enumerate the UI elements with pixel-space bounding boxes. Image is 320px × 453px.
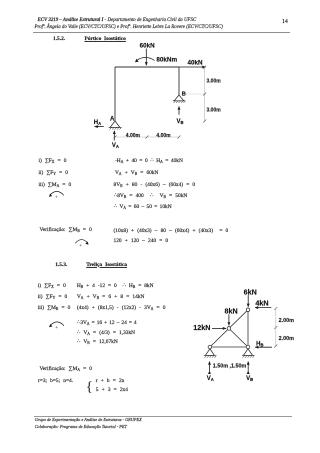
load arrow 60kN (145, 49, 147, 66)
label VB truss (246, 376, 253, 382)
label 60kN (140, 42, 156, 49)
footer line 2 (35, 425, 127, 429)
truss member right vertical (247, 310, 249, 347)
node label A (110, 117, 115, 123)
verification 1.5.3 (40, 367, 93, 372)
truss label 4kN (255, 299, 268, 308)
equations section 1.5.3 right column (77, 284, 154, 289)
svg-text:B: B (182, 92, 186, 98)
moment sign convention arrow (section 1.5.3 iii) (49, 322, 64, 331)
truss node middle (227, 327, 231, 331)
verification 1.5.2 (40, 228, 92, 233)
label HB (256, 342, 263, 348)
svg-text:1.50m: 1.50m (213, 363, 228, 369)
node label B (182, 92, 186, 98)
equations section 1.5.3 left column (38, 284, 66, 289)
beam (115, 66, 179, 68)
truss node top (246, 308, 250, 312)
svg-text:80kNm: 80kNm (156, 57, 177, 64)
truss support right (242, 349, 255, 358)
support A pin (109, 121, 122, 130)
header rule (33, 32, 290, 33)
svg-text:+: + (55, 195, 58, 201)
truss load arrow 12kN (212, 327, 226, 329)
left column (114, 67, 116, 121)
svg-text:8kN: 8kN (225, 307, 238, 316)
page number 14 (282, 20, 288, 26)
bottom dimension line (114, 136, 181, 139)
right dimension line (186, 66, 206, 123)
dimension label 3.00m upper (207, 79, 222, 85)
footer line 1 (35, 418, 142, 422)
svg-text:2.00m: 2.00m (279, 336, 294, 342)
svg-text:4.00m: 4.00m (126, 133, 141, 139)
label VA truss (207, 376, 214, 382)
svg-text:2.00m: 2.00m (279, 318, 294, 324)
svg-text:4kN: 4kN (255, 299, 268, 308)
truss member bottom chord (210, 346, 248, 348)
equations section 1.5.2 right column (115, 159, 183, 164)
reaction arrow VB truss (247, 362, 249, 371)
dimension label 2.00m lower (279, 336, 294, 342)
label VB (177, 119, 184, 125)
truss member mid to bottom-right (229, 328, 248, 347)
svg-text:VB: VB (177, 119, 184, 125)
truss node bottom-left (208, 345, 212, 349)
svg-text:4.00m: 4.00m (156, 133, 171, 139)
truss node bottom-right (246, 345, 250, 349)
truss load arrow 4kN (255, 307, 271, 309)
truss load arrow 6kN (247, 295, 249, 307)
support B pin (173, 95, 186, 103)
svg-text:3.00m: 3.00m (207, 108, 222, 114)
svg-text:VA: VA (112, 143, 119, 149)
label 40kN (188, 60, 204, 67)
svg-text:+: + (55, 325, 58, 331)
reaction arrow HA (95, 126, 104, 128)
right column (178, 67, 180, 95)
moment arc 80kNm (135, 57, 155, 62)
header line 1 (38, 19, 197, 24)
svg-text:,1.50m: ,1.50m (230, 363, 247, 369)
svg-text:3.00m: 3.00m (207, 79, 222, 85)
svg-text:+: + (79, 243, 82, 249)
truss dimension 1.50m labels (213, 363, 247, 369)
label 80kNm (156, 57, 177, 64)
footer rule (34, 416, 292, 417)
reaction arrow VB (178, 106, 180, 114)
reaction arrow VA truss (209, 362, 211, 371)
dimension label 2.00m upper (279, 318, 294, 324)
label HA (94, 120, 101, 126)
dimension label 4.00m right (156, 133, 171, 139)
svg-text:40kN: 40kN (188, 60, 204, 67)
header line 2 (35, 26, 223, 31)
section heading 1.5.2 (53, 37, 65, 42)
svg-text:HA: HA (94, 120, 101, 126)
dimension label 3.00m lower (207, 108, 222, 114)
moment sign convention arrow (section 1.5.2 iii) (49, 191, 64, 200)
section heading 1.5.3 (55, 263, 67, 268)
svg-text:VB: VB (246, 376, 253, 382)
dimension label 4.00m left (126, 133, 141, 139)
svg-text:60kN: 60kN (140, 42, 156, 49)
svg-text:12kN: 12kN (193, 323, 210, 332)
truss support left (204, 349, 217, 358)
equations section 1.5.2 left column (39, 159, 67, 164)
truss load arrow 8kN (228, 314, 230, 325)
moment sign convention arrow (verification 1.5.2) (75, 240, 88, 249)
reaction arrow HB (255, 346, 272, 348)
truss label 8kN (225, 307, 238, 316)
truss right dimension line (274, 307, 277, 347)
svg-text:HB: HB (256, 342, 263, 348)
load arrow 40kN (179, 66, 206, 68)
label VA (112, 143, 119, 149)
truss label 6kN (244, 287, 257, 296)
truss member main diagonal (210, 310, 248, 347)
truss label 12kN (193, 323, 210, 332)
svg-text:VA: VA (207, 376, 214, 382)
reaction arrow VA (113, 131, 115, 141)
svg-text:6kN: 6kN (244, 287, 257, 296)
